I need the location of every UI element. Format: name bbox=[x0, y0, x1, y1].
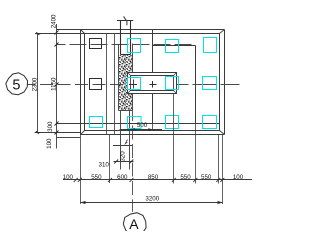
beam corner miter top-right bbox=[174, 73, 177, 76]
centre cross at inner step bbox=[150, 81, 157, 88]
duct channel right line bbox=[130, 21, 132, 55]
left chain top arrow bbox=[35, 32, 41, 35]
svg-text:100: 100 bbox=[233, 174, 244, 181]
svg-text:2300: 2300 bbox=[31, 77, 38, 91]
svg-text:500: 500 bbox=[137, 122, 148, 129]
bottom edge dimension extension bbox=[35, 132, 81, 134]
grid line 5 horizontal right span bbox=[177, 84, 240, 86]
right chain tick y32 bbox=[55, 31, 59, 35]
svg-text:320: 320 bbox=[120, 151, 127, 162]
svg-text:550: 550 bbox=[201, 174, 212, 181]
anchor plate M9 cyan row3 col3 bbox=[166, 116, 179, 129]
beam box inner line bbox=[131, 76, 174, 91]
beam corner miter bottom-right bbox=[174, 91, 177, 94]
dimension 310 tick left bbox=[114, 160, 118, 164]
slab outline inner left edge bbox=[84, 34, 86, 131]
left chain bottom arrow bbox=[35, 131, 41, 134]
row tick x174.7 bbox=[172, 178, 176, 182]
concrete hatch fill bbox=[119, 55, 133, 111]
extension line x109.5 bbox=[109, 135, 111, 184]
corner miter top-right bbox=[220, 30, 225, 34]
slab outline outer left edge bbox=[80, 30, 82, 135]
extension line x218.3 bbox=[218, 135, 220, 184]
duct channel lower left line bbox=[120, 111, 122, 170]
right dimension chain line bbox=[56, 24, 58, 149]
corner miter bottom-left bbox=[81, 131, 85, 135]
svg-text:A: A bbox=[129, 216, 139, 231]
left ledge bottom edge bbox=[57, 137, 81, 139]
anchor plate M4 cyan row2 col2 bbox=[128, 78, 141, 90]
slab outline outer top edge bbox=[56, 29, 225, 31]
total dimension 3200 line bbox=[81, 202, 223, 204]
slab outline inner right edge bbox=[219, 34, 221, 131]
extension line x222.3 bbox=[222, 135, 224, 205]
inner step rectangle left edge bbox=[152, 30, 154, 124]
slab outline outer right edge bbox=[224, 30, 226, 135]
dimension 320 arrow tail bbox=[126, 140, 129, 142]
svg-text:100: 100 bbox=[46, 138, 53, 149]
centre cross at grid A bbox=[129, 80, 137, 89]
duct channel connector bbox=[121, 54, 131, 56]
row tick x218.3 bbox=[216, 178, 220, 182]
svg-text:1150: 1150 bbox=[51, 77, 58, 91]
beam corner miter bottom-left bbox=[128, 91, 131, 94]
duct channel left line bbox=[120, 21, 122, 55]
total 3200 right arrow bbox=[218, 201, 223, 204]
hatch right boundary bbox=[132, 44, 134, 111]
anchor plate M1 cyan row1 col2 bbox=[128, 39, 141, 53]
dimension 320 line bbox=[113, 145, 132, 147]
anchor plate M5 cyan row2 col3 bbox=[166, 77, 179, 90]
grid line A top arrow mark bbox=[124, 16, 127, 25]
grid line A top tick bbox=[117, 20, 133, 22]
row tick x131.5 bbox=[130, 178, 134, 182]
inner step rectangle bottom edge / step line bbox=[57, 123, 220, 125]
svg-text:550: 550 bbox=[180, 174, 191, 181]
svg-text:550: 550 bbox=[91, 174, 102, 181]
anchor plate M10 cyan row3 col4 bbox=[203, 116, 217, 129]
row tick x75.7 bbox=[74, 178, 78, 182]
dimension 500 extension bbox=[152, 124, 154, 132]
bottom dimension row line bbox=[63, 179, 252, 181]
anchor plate M7 cyan row3 col1 bbox=[90, 117, 103, 128]
anchor plate M3 cyan row1 col4 bbox=[204, 38, 217, 53]
dimension 310 line bbox=[114, 161, 134, 163]
dimension 500 right arrow bbox=[148, 128, 152, 131]
svg-text:5: 5 bbox=[12, 78, 20, 94]
dimension 320 arrow bbox=[124, 141, 127, 145]
grid line 5 horizontal left span bbox=[28, 84, 128, 86]
beam box white fill bbox=[128, 73, 177, 94]
svg-text:600: 600 bbox=[117, 174, 128, 181]
svg-text:850: 850 bbox=[148, 174, 159, 181]
dimension 500 left arrow bbox=[131, 128, 135, 131]
anchor plate M8 cyan row3 col2 bbox=[128, 117, 142, 129]
extension line x195.3 bbox=[195, 124, 197, 184]
inner step rectangle right edge bbox=[195, 46, 197, 124]
row tick x110 bbox=[108, 178, 112, 182]
svg-text:300: 300 bbox=[47, 121, 54, 132]
total 3200 left arrow bbox=[81, 201, 86, 204]
anchor plate M6 cyan row2 col4 bbox=[203, 77, 217, 90]
wall line left bbox=[106, 34, 108, 135]
extension line x174.7 bbox=[173, 94, 175, 184]
duct channel lower right line bbox=[129, 111, 131, 170]
column K1 black square row1 bbox=[90, 39, 102, 49]
slab outline inner top edge bbox=[38, 33, 220, 35]
wall line right bbox=[114, 34, 116, 135]
row tick x79.8 bbox=[78, 178, 82, 182]
grid bubble 5 bbox=[6, 73, 28, 95]
grid line row1 horizontal bbox=[57, 44, 196, 46]
beam corner miter top-left bbox=[128, 73, 131, 76]
svg-text:310: 310 bbox=[99, 162, 110, 169]
anchor plate M2 cyan row1 col3 bbox=[166, 40, 179, 53]
corner miter bottom-right bbox=[220, 131, 225, 135]
row tick x195.3 bbox=[193, 178, 197, 182]
hatch left boundary bbox=[118, 45, 120, 111]
right chain tick y123.7 bbox=[55, 122, 59, 126]
slab outline inner bottom edge bbox=[85, 130, 220, 132]
svg-text:2400: 2400 bbox=[50, 14, 57, 28]
right chain tick y43.8 bbox=[55, 43, 59, 47]
column K2 black square row2 bbox=[90, 79, 102, 90]
hatch bottom cap bbox=[119, 110, 133, 112]
right chain tick y133.8 bbox=[55, 131, 59, 135]
extension line x80.2 bbox=[80, 135, 82, 205]
grid line A vertical bbox=[132, 55, 134, 212]
right chain tick y84.5 bbox=[55, 83, 59, 87]
grid bubble A bbox=[123, 213, 146, 236]
svg-text:100: 100 bbox=[63, 174, 74, 181]
dimension 310 tick right bbox=[129, 160, 133, 164]
dimension 500 line bbox=[120, 129, 163, 131]
corner miter top-left bbox=[81, 30, 85, 34]
inner step rectangle top edge bbox=[153, 45, 196, 47]
left dimension chain line bbox=[37, 34, 39, 133]
svg-text:3200: 3200 bbox=[145, 195, 159, 202]
row tick x222.3 bbox=[220, 178, 224, 182]
slab outline outer bottom edge bbox=[81, 134, 225, 136]
